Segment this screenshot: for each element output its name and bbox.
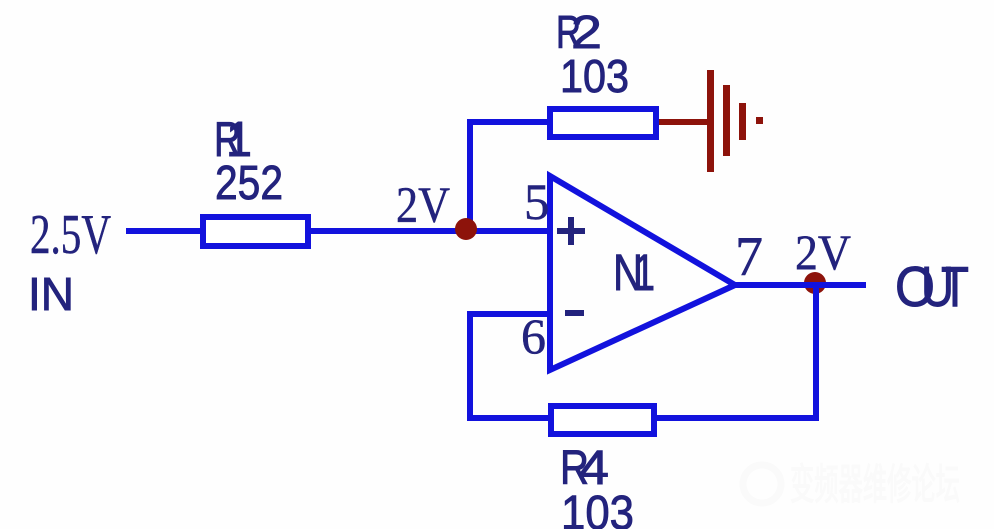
junction node dot	[455, 218, 477, 240]
label R1	[214, 113, 252, 167]
svg-text:T: T	[941, 255, 969, 319]
plus symbol	[557, 217, 585, 245]
svg-text:252: 252	[215, 157, 283, 210]
label R4	[560, 442, 609, 495]
watermark	[743, 461, 960, 508]
wire output branch up	[813, 282, 819, 421]
ground (battery-style)	[707, 70, 763, 172]
wire output	[735, 282, 866, 288]
junction node dot out	[804, 272, 826, 294]
wire to R2	[467, 119, 550, 125]
label R2	[556, 6, 602, 58]
wire R1 to op-amp	[308, 228, 552, 234]
wire R4 to output branch	[654, 415, 819, 421]
svg-text:2V: 2V	[795, 224, 851, 280]
svg-text:变频器维修论坛: 变频器维修论坛	[790, 461, 960, 508]
wire node up	[467, 119, 473, 234]
svg-text:7: 7	[735, 226, 763, 288]
wire feedback left down	[467, 311, 473, 421]
net label OUT	[895, 255, 969, 319]
svg-text:5: 5	[524, 175, 550, 231]
op-amp N1	[550, 176, 735, 370]
resistor R2	[550, 109, 656, 137]
svg-text:103: 103	[561, 487, 634, 529]
svg-text:1: 1	[634, 244, 655, 301]
wire feedback bottom to R4	[467, 415, 551, 421]
svg-text:2.5V: 2.5V	[30, 204, 111, 266]
label N1	[613, 244, 655, 301]
resistor R1	[203, 217, 308, 246]
svg-text:2V: 2V	[396, 178, 450, 234]
svg-text:IN: IN	[28, 268, 74, 320]
wire input to R1	[126, 228, 203, 234]
resistor R4	[551, 406, 654, 434]
wire minus input	[467, 311, 550, 317]
wire R2 to ground	[659, 119, 710, 125]
minus symbol	[565, 310, 584, 316]
svg-text:103: 103	[560, 50, 629, 102]
